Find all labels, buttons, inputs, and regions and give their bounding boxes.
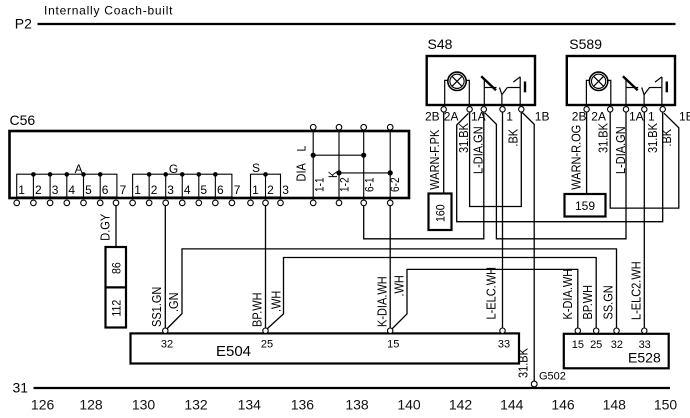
svg-text:D.GY: D.GY <box>99 214 113 241</box>
svg-text:.BK: .BK <box>507 129 521 147</box>
svg-text:E504: E504 <box>216 343 251 360</box>
node P2 rail <box>38 23 676 25</box>
svg-text:L: L <box>296 146 309 152</box>
C56 DIA section top terminal circles 1-1 1-2 6-1 6-2 <box>310 124 393 130</box>
switch unit S589 outline <box>567 56 675 105</box>
svg-text:6-1: 6-1 <box>364 177 377 192</box>
track reference box 86/112 <box>106 247 127 328</box>
svg-text:SS1.GN: SS1.GN <box>150 287 164 327</box>
track reference box 160 <box>429 194 452 231</box>
connector C56 outline <box>10 131 410 198</box>
svg-text:.WH: .WH <box>393 275 407 296</box>
wire WARN-R.OG from S589 2B to track box 159 <box>586 112 588 194</box>
S48 switch contacts <box>484 77 520 104</box>
svg-text:1-1: 1-1 <box>314 177 327 192</box>
C56 terminal circles G1-G7 <box>130 200 235 206</box>
S48 indicator lamp <box>445 72 470 104</box>
C56 pin group S box <box>251 174 281 197</box>
svg-text:1: 1 <box>134 183 141 197</box>
svg-text:L-DIA.GN: L-DIA.GN <box>472 126 486 174</box>
svg-text:1-2: 1-2 <box>339 177 352 192</box>
svg-text:130: 130 <box>132 397 156 413</box>
svg-text:136: 136 <box>291 397 315 413</box>
svg-text:.WH: .WH <box>270 291 284 312</box>
svg-text:.GN: .GN <box>167 292 181 312</box>
svg-text:138: 138 <box>345 397 369 413</box>
svg-text:BP.WH: BP.WH <box>251 292 265 327</box>
svg-text:31.BK: 31.BK <box>646 123 660 153</box>
svg-text:25: 25 <box>261 339 273 351</box>
wire .WH from E504 pin 15 to E528 pin 15 <box>392 269 578 329</box>
S589 terminal circles 2B 2A 1A 1 1B <box>584 107 666 112</box>
S589 switch lever <box>623 76 638 90</box>
S48 switch ON mark I <box>524 82 526 93</box>
C56 pin numbers A1-A7 <box>18 183 126 197</box>
svg-text:3: 3 <box>282 183 289 197</box>
svg-text:142: 142 <box>449 397 473 413</box>
svg-text:134: 134 <box>238 397 262 413</box>
svg-text:31: 31 <box>13 380 29 396</box>
svg-text:1B: 1B <box>679 110 690 124</box>
svg-text:2A: 2A <box>444 110 459 124</box>
C56 DIA link K between 1-2 and 6-2 <box>336 170 392 175</box>
svg-text:25: 25 <box>590 339 602 351</box>
svg-text:2: 2 <box>267 183 274 197</box>
svg-text:2B: 2B <box>425 110 440 124</box>
svg-text:33: 33 <box>639 339 651 351</box>
ground terminal G502 circle <box>531 381 537 387</box>
svg-text:146: 146 <box>551 397 575 413</box>
wire L-ELC.WH from S48 pin 1 to E504 pin 33 <box>502 112 504 328</box>
svg-text:150: 150 <box>654 397 678 413</box>
svg-text:1: 1 <box>506 110 513 124</box>
svg-text:WARN-R.OG: WARN-R.OG <box>570 125 584 190</box>
wire SS1.GN from C56 G3 to E504 pin 32 <box>164 206 166 328</box>
svg-text:G502: G502 <box>539 371 566 383</box>
wire 31.BK ground S589 2A to S589 1B <box>610 112 679 208</box>
svg-text:33: 33 <box>498 339 510 351</box>
svg-text:31.BK: 31.BK <box>597 123 611 153</box>
svg-text:144: 144 <box>500 397 524 413</box>
svg-text:1A: 1A <box>629 110 644 124</box>
svg-text:2: 2 <box>35 183 42 197</box>
svg-text:32: 32 <box>161 339 173 351</box>
S589 indicator lamp <box>586 72 610 104</box>
C56 pin group G box <box>133 174 232 197</box>
C56 group A junction dots pins 2-6 <box>31 172 102 177</box>
svg-text:L-ELC.WH: L-ELC.WH <box>485 267 499 320</box>
svg-text:5: 5 <box>85 183 92 197</box>
svg-text:132: 132 <box>184 397 208 413</box>
svg-text:148: 148 <box>603 397 627 413</box>
S589 switch ON mark I <box>666 82 668 93</box>
svg-text:4: 4 <box>184 183 191 197</box>
svg-text:1B: 1B <box>535 110 550 124</box>
E504 terminal circles 32 25 15 33 <box>163 328 506 333</box>
C56 terminal circles S1-S3 <box>248 200 284 206</box>
svg-text:G: G <box>169 162 178 176</box>
svg-text:15: 15 <box>387 339 399 351</box>
svg-text:.BK: .BK <box>660 129 674 147</box>
wire D.GY from C56 A7 to track box 86/112 <box>115 206 117 247</box>
wire BP.WH from C56 S2 to E504 pin 25 <box>265 206 267 328</box>
svg-text:K-DIA.WH: K-DIA.WH <box>376 276 390 327</box>
svg-text:SS.GN: SS.GN <box>602 285 616 319</box>
wire .WH from E504 pin 25 to E528 pin 25 <box>267 258 596 330</box>
svg-text:3: 3 <box>167 183 174 197</box>
control unit E528 outline <box>564 334 669 369</box>
wire 31.BK ground S48 2A to S589 1B <box>457 112 663 222</box>
svg-text:BP.WH: BP.WH <box>581 285 595 320</box>
S48 terminal circles 2B 2A 1A 1 1B <box>441 107 524 112</box>
svg-text:1: 1 <box>648 110 655 124</box>
svg-text:126: 126 <box>31 397 55 413</box>
svg-text:S: S <box>252 161 260 175</box>
svg-text:K-DIA.WH: K-DIA.WH <box>561 269 575 320</box>
ground 31 rail <box>34 387 671 389</box>
control unit E504 outline <box>131 333 520 363</box>
svg-text:160: 160 <box>435 204 448 222</box>
svg-text:5: 5 <box>200 183 207 197</box>
svg-text:2B: 2B <box>572 110 587 124</box>
svg-text:L-ELC2.WH: L-ELC2.WH <box>630 261 644 320</box>
svg-text:WARN-F.PK: WARN-F.PK <box>428 130 442 190</box>
wire L-DIA.GN from C56 6-1 to S48 pin 1A <box>364 112 484 239</box>
C56 pin numbers S1-S3 <box>252 183 289 197</box>
svg-text:128: 128 <box>79 397 103 413</box>
wire WARN-F.PK from S48 2B to track box 160 <box>443 112 445 194</box>
svg-text:Internally Coach-built: Internally Coach-built <box>44 3 173 17</box>
C56 group G junction dots pins 2-6 <box>147 172 218 177</box>
svg-text:1: 1 <box>18 183 25 197</box>
C56 DIA link L between 1-1 and 6-1 <box>311 153 367 158</box>
wire L-DIA.GN link S48 1A to S589 1A <box>485 112 626 239</box>
wire L-ELC2.WH from S589 pin 1 to E528 pin 33 <box>643 112 645 328</box>
wire K-DIA.WH from C56 6-2 to E504 pin 15 <box>389 206 391 328</box>
svg-text:E528: E528 <box>628 349 661 365</box>
svg-text:6: 6 <box>217 183 224 197</box>
wire .GN from E504 pin 32 to E528 pin 32 <box>167 249 617 329</box>
svg-text:2A: 2A <box>591 110 606 124</box>
wire ground link S48 2A to S48 1B <box>470 112 522 207</box>
svg-text:C56: C56 <box>10 112 36 128</box>
C56 DIA section bottom terminal circles <box>310 200 393 206</box>
svg-text:15: 15 <box>572 339 584 351</box>
svg-text:32: 32 <box>611 339 623 351</box>
svg-text:L-DIA.GN: L-DIA.GN <box>614 126 628 174</box>
svg-text:159: 159 <box>575 199 595 213</box>
C56 group S junction dot pin 2 <box>263 172 268 177</box>
switch unit S48 outline <box>427 56 535 105</box>
S589 switch contacts <box>626 77 662 104</box>
svg-text:2: 2 <box>151 183 158 197</box>
svg-text:P2: P2 <box>15 16 32 32</box>
svg-text:K: K <box>327 171 340 178</box>
svg-text:S48: S48 <box>428 36 453 52</box>
svg-text:1: 1 <box>252 183 259 197</box>
svg-text:6-2: 6-2 <box>389 177 402 192</box>
C56 terminal circles A1-A7 <box>14 200 119 206</box>
C56 DIA internal wires 1-1 1-2 6-1 6-2 <box>313 130 390 200</box>
svg-text:4: 4 <box>68 183 75 197</box>
C56 pin group A box <box>17 174 117 197</box>
svg-text:3: 3 <box>52 183 59 197</box>
E528 terminal circles 15 25 32 33 <box>575 328 647 333</box>
wire 31.BK from S48 1B to ground G502 <box>522 113 534 381</box>
svg-text:DIA: DIA <box>295 163 309 181</box>
S48 switch lever <box>481 76 496 90</box>
svg-text:86: 86 <box>111 262 124 274</box>
svg-text:112: 112 <box>111 300 124 317</box>
svg-text:7: 7 <box>234 183 241 197</box>
track reference box 159 <box>565 194 606 217</box>
grid coordinate numbers 126-150 <box>31 397 677 413</box>
svg-text:140: 140 <box>397 397 421 413</box>
svg-text:6: 6 <box>102 183 109 197</box>
svg-text:7: 7 <box>120 183 127 197</box>
svg-text:S589: S589 <box>569 36 602 52</box>
C56 pin numbers G1-G7 <box>134 183 241 197</box>
